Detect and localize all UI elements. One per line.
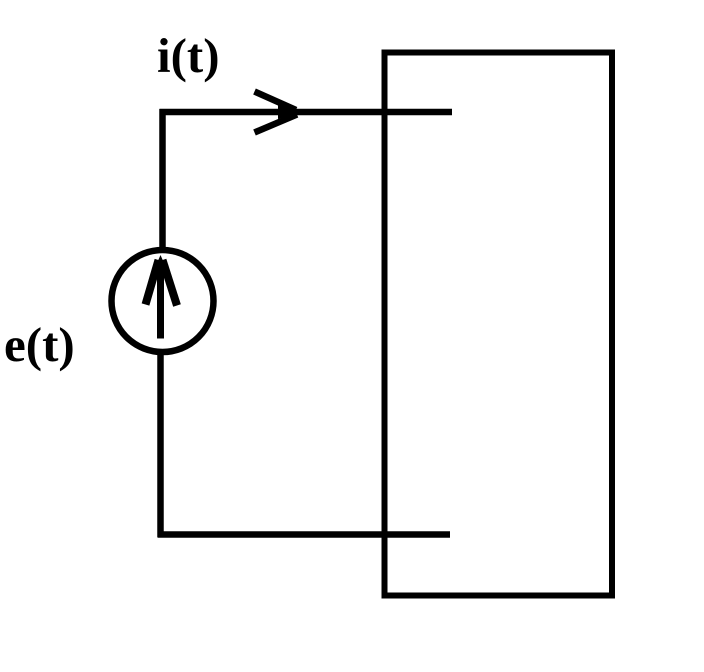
load box (two-terminal network block): [385, 53, 613, 596]
wire left vertical upper segment: [159, 109, 166, 252]
arrow inside source: [146, 255, 178, 339]
label e(t): [4, 316, 75, 373]
label i(t): [157, 27, 220, 84]
source circle e(t): [112, 250, 214, 352]
current arrow on top wire i(t): [255, 92, 305, 133]
wire bottom horizontal from source to inside box: [158, 531, 451, 538]
wire left vertical lower segment: [157, 351, 164, 537]
wire top horizontal from source to inside box: [160, 109, 453, 116]
